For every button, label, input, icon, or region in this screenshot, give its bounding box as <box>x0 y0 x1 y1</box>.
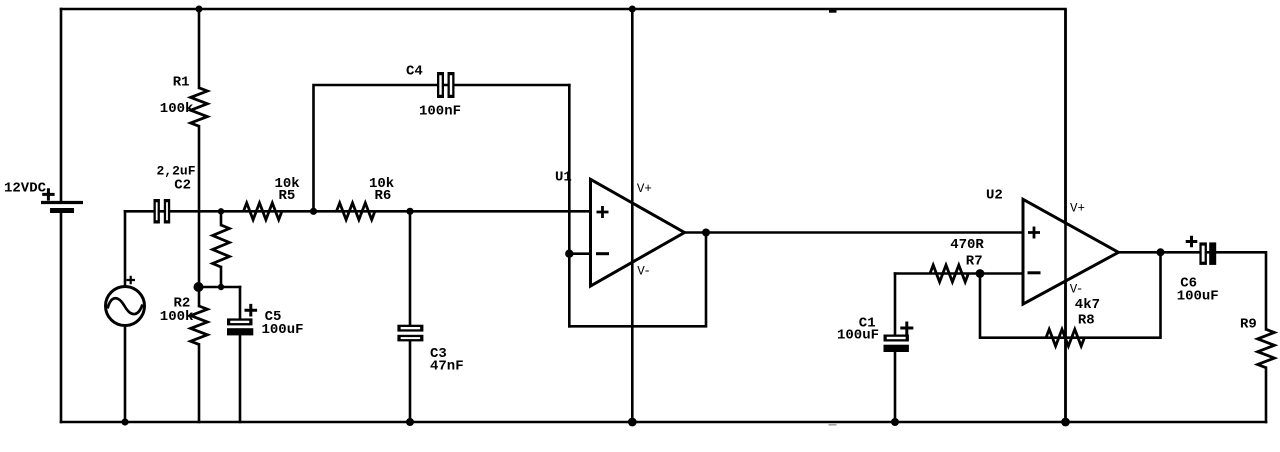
svg-text:U1: U1 <box>555 170 572 186</box>
svg-text:R7: R7 <box>966 254 983 270</box>
svg-text:R1: R1 <box>173 75 190 91</box>
svg-text:100uF: 100uF <box>1177 289 1219 305</box>
svg-text:100uF: 100uF <box>262 322 304 338</box>
svg-text:100k: 100k <box>160 101 194 117</box>
svg-text:R8: R8 <box>1078 312 1095 328</box>
svg-text:470R: 470R <box>950 237 984 253</box>
svg-text:V-: V- <box>1070 282 1084 296</box>
svg-text:R5: R5 <box>279 188 296 204</box>
svg-text:V+: V+ <box>1070 201 1085 215</box>
svg-text:100uF: 100uF <box>837 328 879 344</box>
svg-text:V-: V- <box>637 265 651 279</box>
svg-text:U2: U2 <box>986 187 1003 203</box>
svg-text:V+: V+ <box>637 182 652 196</box>
svg-text:C4: C4 <box>406 64 423 80</box>
svg-text:4k7: 4k7 <box>1075 297 1100 313</box>
svg-text:C2: C2 <box>174 178 191 194</box>
svg-text:R9: R9 <box>1240 316 1257 332</box>
svg-text:12VDC: 12VDC <box>4 180 47 196</box>
svg-text:2,2uF: 2,2uF <box>157 164 196 179</box>
svg-text:R6: R6 <box>375 188 392 204</box>
svg-text:47nF: 47nF <box>430 359 464 375</box>
svg-text:100k: 100k <box>160 309 194 325</box>
svg-text:100nF: 100nF <box>419 104 461 120</box>
